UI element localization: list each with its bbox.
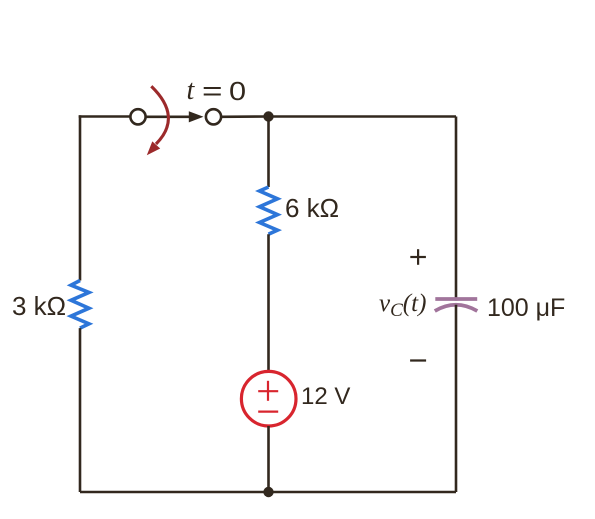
wire: middle branch upper (node A to R 6k) — [267, 117, 270, 188]
switch throw terminal (open circle right) — [206, 109, 221, 124]
value label 100 uF — [487, 294, 565, 323]
wire: middle branch between R 6k and source — [267, 234, 270, 371]
switch blade arrow (closing into right contact) — [146, 111, 204, 122]
value label 6 kOhm — [285, 193, 339, 224]
resistor R 6 kOhm (middle branch) — [260, 187, 278, 234]
wire: middle branch lower (source to bottom node) — [267, 426, 270, 492]
node B junction dot (bottom middle) — [263, 487, 273, 497]
switch closing motion arc (dark red) — [147, 86, 169, 155]
node A junction dot (top middle) — [263, 111, 273, 121]
wire: left branch upper — [79, 115, 82, 280]
wire: right branch lower (capacitor to bottom) — [455, 305, 458, 492]
wire: bottom right segment — [269, 491, 457, 494]
voltage label vC(t) — [379, 290, 426, 322]
wire: top middle segment (switch to node A) — [222, 115, 269, 118]
switch pole terminal (open circle left) — [130, 109, 145, 124]
value label 3 kOhm — [12, 291, 66, 322]
voltage source V1 12V (circle) — [241, 371, 296, 426]
wire: right branch upper (top to capacitor) — [455, 117, 458, 301]
wire: bottom left segment — [80, 491, 269, 494]
resistor R 3 kOhm (left branch) — [71, 281, 89, 329]
value label 12 V — [301, 383, 350, 411]
wire: top right segment — [269, 115, 457, 118]
capacitor C 100uF top plate — [435, 297, 477, 301]
voltage source plus sign — [258, 381, 278, 401]
capacitor C 100uF bottom plate (curved) — [435, 305, 478, 311]
wire: left branch lower — [79, 328, 82, 492]
capacitor polarity minus mark — [410, 359, 426, 361]
label t = 0 (switch time) — [187, 76, 247, 78]
voltage source minus sign — [258, 411, 278, 413]
wire: top left segment — [80, 117, 130, 118]
capacitor polarity plus mark — [410, 249, 426, 265]
